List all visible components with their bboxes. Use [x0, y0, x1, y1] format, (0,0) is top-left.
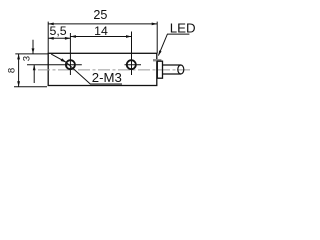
- mounting hole right: [127, 60, 136, 69]
- svg-text:LED: LED: [170, 21, 196, 36]
- svg-text:5,5: 5,5: [50, 24, 67, 38]
- LED leader line: [158, 34, 189, 56]
- connector cylinder: [162, 65, 181, 74]
- left hole vertical centerline / extension: [69, 33, 71, 75]
- left hole horizontal tick: [27, 64, 82, 66]
- sensor body outline: [48, 53, 157, 85]
- dimension line 5,5 / 14: [48, 37, 70, 39]
- svg-text:3: 3: [21, 56, 32, 61]
- dimension 3 bottom arrow: [33, 65, 35, 83]
- svg-text:14: 14: [94, 24, 108, 38]
- 2-M3 leader line: [51, 54, 122, 84]
- extension line above left edge: [47, 22, 49, 54]
- svg-text:25: 25: [93, 8, 107, 22]
- right hole horizontal tick: [125, 64, 142, 66]
- extension line above right edge: [156, 22, 158, 54]
- mounting hole left: [66, 60, 75, 69]
- svg-text:2-M3: 2-M3: [92, 70, 122, 85]
- connector flange: [157, 61, 162, 78]
- extension line top-left of body: [15, 53, 48, 55]
- dimension line 8: [18, 54, 20, 87]
- connector end cap ellipse: [178, 65, 184, 74]
- extension line bottom-left of body: [14, 86, 47, 88]
- dimension 3 top arrow: [32, 40, 34, 54]
- LED indicator (gray bar): [153, 59, 161, 61]
- right hole vertical centerline / extension: [131, 32, 133, 76]
- dimension line 25: [48, 23, 157, 25]
- connector centerline (gray dash-dot): [38, 69, 192, 71]
- svg-text:8: 8: [7, 68, 18, 73]
